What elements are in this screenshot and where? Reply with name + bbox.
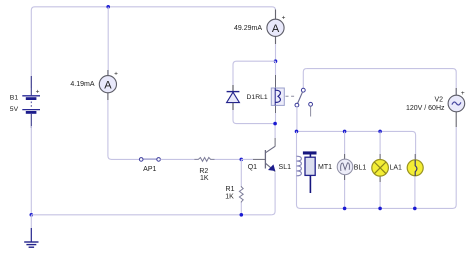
- node top-left junction: [106, 5, 110, 9]
- svg-text:D1RL1: D1RL1: [247, 94, 268, 101]
- svg-text:Q1: Q1: [248, 164, 257, 171]
- relay link dashes: [286, 95, 296, 97]
- svg-text:49.29mA: 49.29mA: [234, 25, 262, 32]
- svg-text:120V / 60Hz: 120V / 60Hz: [406, 105, 445, 112]
- transistor Q1: [265, 146, 275, 171]
- node bottom rail LA1: [378, 207, 382, 211]
- svg-text:V2: V2: [434, 97, 443, 104]
- battery B1: [22, 76, 40, 128]
- node A2 bottom junction: [274, 59, 278, 63]
- svg-text:LA1: LA1: [390, 165, 403, 172]
- svg-text:R1: R1: [226, 186, 235, 193]
- bell BL1: [337, 131, 353, 208]
- svg-text:+: +: [114, 71, 118, 78]
- wire diode branch top: [233, 61, 276, 85]
- wire relay column: [275, 61, 277, 75]
- wire bottom rail: [31, 214, 271, 216]
- lamp LA1: [372, 131, 389, 208]
- node base junction: [240, 158, 244, 162]
- svg-text:A: A: [104, 79, 112, 91]
- solenoid SL1: [297, 156, 302, 176]
- plunger MT1: [303, 151, 317, 193]
- wire R2 to base node: [215, 158, 242, 160]
- source V2: [448, 88, 465, 127]
- wire diode branch bottom: [233, 110, 275, 124]
- switch AP1: [139, 158, 160, 162]
- wire top rail: [31, 7, 275, 88]
- ammeter A2: [267, 10, 286, 62]
- node top rail left: [295, 130, 299, 134]
- svg-text:MT1: MT1: [318, 164, 332, 171]
- wire V2 down to bottom right rail: [300, 127, 456, 208]
- svg-text:AP1: AP1: [143, 166, 156, 173]
- wire battery to bottom rail: [30, 126, 32, 215]
- svg-text:R2: R2: [199, 168, 208, 175]
- svg-text:+: +: [282, 15, 286, 22]
- wire AP1 to R2: [160, 158, 194, 160]
- wire A1 upper branch: [107, 7, 109, 76]
- resistor R1: [239, 159, 243, 214]
- wire SL1 branch: [297, 131, 301, 208]
- diode D1: [227, 85, 240, 110]
- svg-text:5V: 5V: [10, 106, 19, 113]
- wire parallel top rail: [297, 131, 416, 160]
- wire Q1 collector up: [274, 124, 276, 138]
- svg-text:+: +: [36, 89, 40, 96]
- ground: [24, 215, 38, 247]
- node top rail BL1: [343, 130, 347, 134]
- node relay bottom junction: [273, 122, 277, 126]
- node bottom rail buzzer: [413, 207, 417, 211]
- svg-text:B1: B1: [10, 95, 19, 102]
- svg-text:BL1: BL1: [354, 165, 367, 172]
- relay coil RL1: [271, 88, 284, 105]
- wire Q1 emitter down to bottom rail: [272, 172, 276, 214]
- node R1 bottom junction: [240, 213, 244, 217]
- wire contact to V2 top: [307, 69, 457, 96]
- svg-text:+: +: [461, 90, 465, 97]
- node bottom rail BL1: [343, 207, 347, 211]
- buzzer lamp: [407, 154, 423, 208]
- svg-text:A: A: [272, 23, 280, 35]
- node bottom-left junction: [30, 213, 34, 217]
- svg-text:4.19mA: 4.19mA: [70, 81, 94, 88]
- node top rail LA1: [378, 130, 382, 134]
- svg-text:SL1: SL1: [279, 164, 292, 171]
- wire A1 lower branch to AP1: [108, 93, 140, 160]
- ammeter A1: [99, 70, 118, 100]
- svg-text:1K: 1K: [200, 175, 209, 182]
- resistor R2: [194, 158, 214, 162]
- svg-text:1K: 1K: [225, 194, 234, 201]
- relay contact SW1: [295, 69, 313, 132]
- wire base node to Q1: [241, 158, 253, 160]
